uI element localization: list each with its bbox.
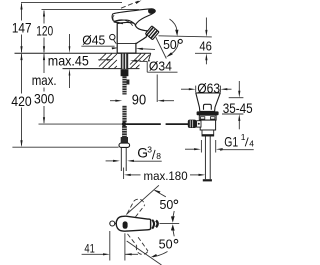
dim 41: [82, 231, 138, 261]
spout height reference line: [159, 36, 212, 37]
top view: lever end cap: [156, 221, 158, 228]
svg-text:max.45: max.45: [48, 52, 89, 68]
dim 90: [110, 100, 116, 102]
G1 1/4 dimension: [185, 140, 222, 153]
junction node: [122, 122, 126, 126]
top view: lower 50 arc segment a: [173, 230, 174, 236]
svg-text:1: 1: [241, 132, 246, 142]
pop-up rod to waste: [126, 123, 161, 125]
top view: angle leg upper: [126, 185, 159, 214]
dim 46 bottom line: [195, 52, 212, 54]
tail connector: [202, 130, 214, 136]
svg-text:300: 300: [34, 91, 54, 107]
deck right inner arrow: [137, 60, 141, 62]
dim 147 vertical line: [21, 4, 23, 53]
label Ø34 bracket top: [140, 60, 148, 62]
svg-text:50: 50: [160, 197, 174, 212]
svg-text:Ø63: Ø63: [197, 81, 220, 96]
dim 120 arrows: [43, 10, 45, 17]
faucet lever tip dark end: [148, 9, 155, 14]
G3/8 pipe: [121, 148, 126, 172]
svg-text:max.: max.: [32, 73, 57, 88]
aerator (angled spray outlet): [145, 26, 159, 40]
reference line top (handle raised level): [21, 2, 122, 4]
seal band: [197, 111, 219, 115]
max.180 dimension: [123, 168, 125, 180]
side knob: [110, 34, 115, 39]
top view: upper 50 arc segment a: [155, 190, 166, 197]
50 degree arc upper segment: [170, 19, 177, 31]
dim 420 vertical line: [21, 54, 23, 145]
deck bottom line: [63, 68, 147, 70]
deck hatching left: [99, 54, 117, 69]
max300 reference line: [39, 123, 123, 125]
deck hatching right: [130, 54, 150, 69]
max.45 horizontal leader arrow: [98, 59, 107, 61]
waste body box: [200, 120, 215, 130]
top view: lever hinge slot: [123, 221, 128, 228]
label Ø34 white backing: [140, 61, 179, 72]
top view: spray outlet circle: [110, 221, 115, 226]
svg-text:120: 120: [36, 24, 53, 40]
Ø45 left arrow: [112, 47, 119, 49]
svg-text:8: 8: [156, 151, 161, 161]
dim 35-45: [222, 81, 243, 129]
deck break diagonal: [146, 53, 151, 68]
svg-text:90: 90: [132, 92, 146, 108]
svg-text:50: 50: [163, 37, 177, 52]
90 extension line: [156, 75, 158, 103]
reference line handle rest level: [42, 9, 140, 11]
svg-text:147: 147: [12, 20, 32, 35]
lock nut: [199, 115, 216, 120]
dashed lever raised position: [121, 1, 139, 8]
Ø63 dimension: [181, 86, 232, 92]
pop-up waste flange: [196, 93, 221, 112]
svg-text:G1: G1: [224, 135, 238, 150]
dim 46 arrows: [205, 18, 207, 31]
threaded shank through deck: [121, 69, 130, 122]
hose end line: [12, 146, 118, 148]
top view: upper 50 arc segment b: [173, 211, 174, 217]
faucet lever blade: [112, 9, 155, 25]
spray direction line: [156, 37, 167, 58]
svg-text:Ø45: Ø45: [82, 33, 105, 48]
svg-text:50: 50: [159, 236, 173, 251]
top view: lever grip ring: [152, 220, 154, 229]
top view: lower 50 arc segment b: [153, 252, 168, 257]
svg-text:35-45: 35-45: [223, 100, 253, 116]
svg-text:3: 3: [147, 145, 152, 155]
deck top line: [15, 52, 151, 54]
faucet base step line: [117, 42, 136, 44]
faucet shank in deck: [121, 54, 128, 70]
top view: dashed lever rotated down: [128, 234, 149, 255]
svg-text:46: 46: [199, 38, 211, 53]
G3/8 arrows: [106, 160, 114, 162]
top view: faucet body and lever: [116, 216, 150, 231]
plug lift arch: [204, 104, 212, 110]
dim 420 arrows: [20, 53, 22, 60]
svg-text:41: 41: [84, 242, 94, 256]
svg-text:4: 4: [249, 138, 254, 148]
svg-text:420: 420: [11, 93, 32, 109]
clevis knurled: [188, 120, 197, 128]
raised lever arrow: [136, 0, 142, 4]
tailpipe end cap: [203, 179, 212, 181]
Ø45 right arrow: [142, 48, 155, 51]
faucet dome under blade: [115, 20, 133, 26]
svg-text:Ø34: Ø34: [149, 59, 172, 74]
50 degree arc lower segment: [170, 41, 178, 55]
dim max.300 arrows: [43, 53, 45, 60]
svg-text:max.180: max.180: [144, 169, 188, 183]
max.45 vertical arrows: [69, 34, 71, 47]
top view: angle leg lower: [127, 241, 162, 265]
faucet lever end curl detail: [113, 15, 114, 20]
dim max.300 vertical line: [43, 54, 45, 123]
top view: dashed lever rotated up: [127, 199, 144, 217]
dim 120 vertical line: [43, 11, 45, 53]
supply connection below junction: [122, 126, 127, 137]
dim 147 arrows: [20, 3, 22, 10]
top view: horizontal reference line: [160, 222, 180, 224]
faucet blade lower-left dark edge: [114, 22, 123, 24]
faucet body side view: [117, 22, 147, 53]
tailpipe: [205, 136, 210, 179]
